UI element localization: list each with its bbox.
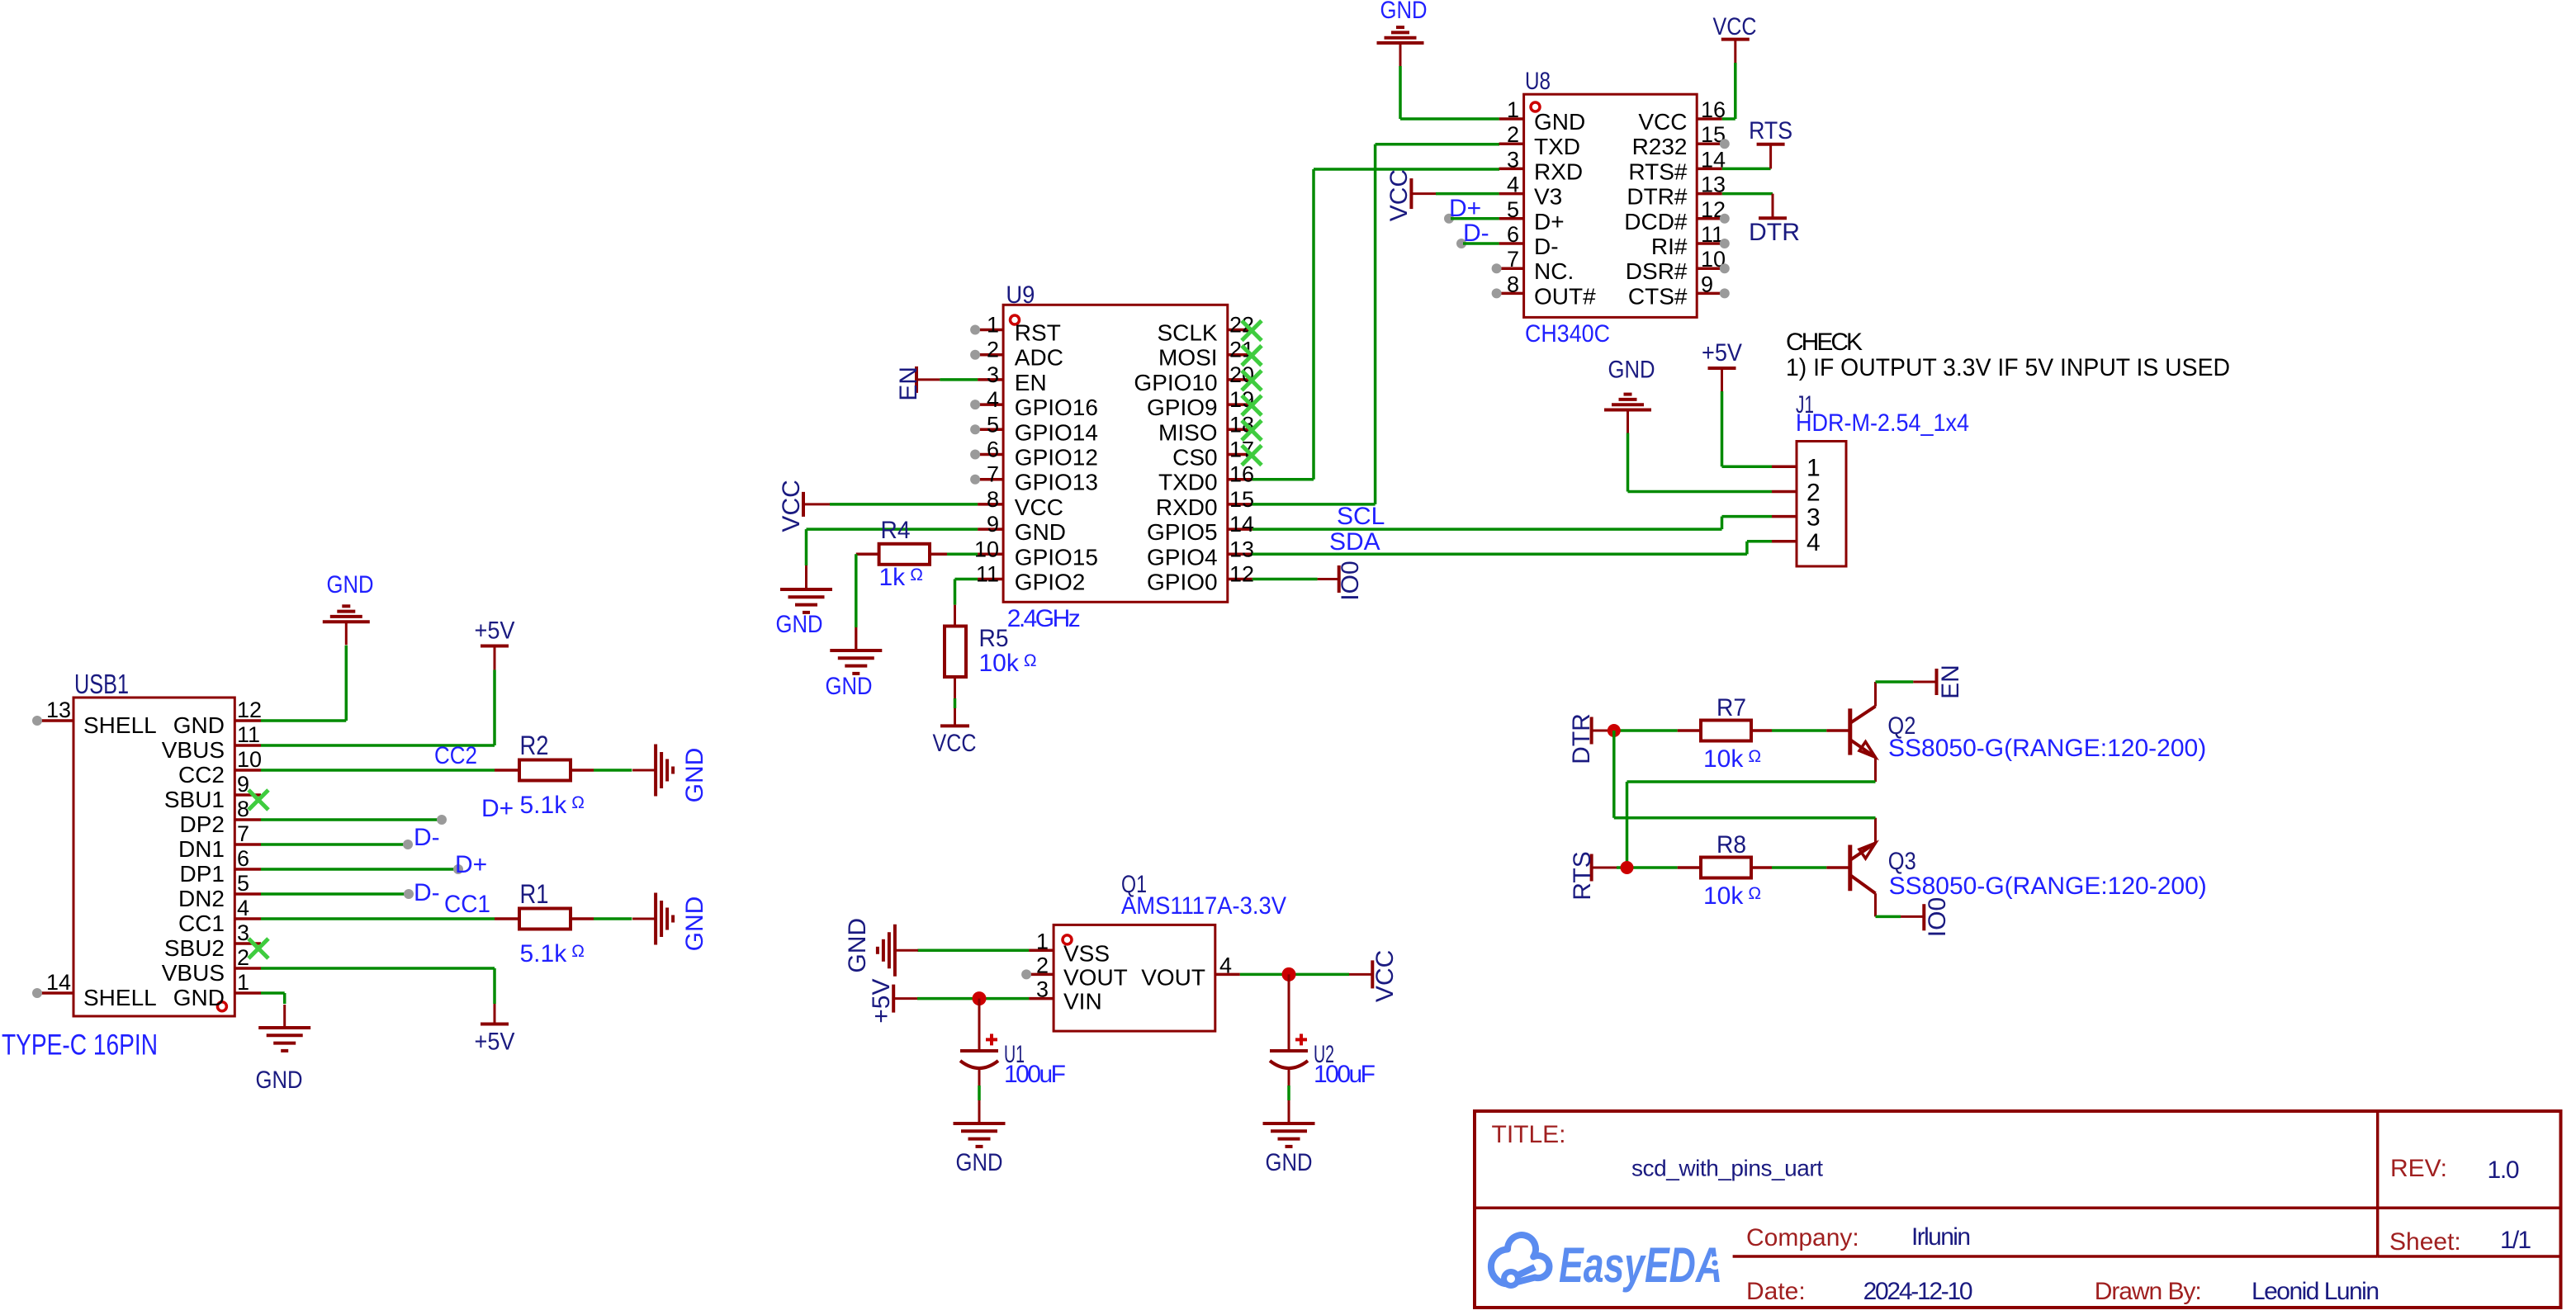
svg-text:D-: D- <box>1463 220 1489 247</box>
svg-text:V3: V3 <box>1534 184 1562 210</box>
svg-text:3: 3 <box>987 362 999 387</box>
svg-text:6: 6 <box>987 438 999 462</box>
svg-text:MISO: MISO <box>1158 419 1218 445</box>
svg-text:VCC: VCC <box>1638 109 1687 135</box>
svg-text:7: 7 <box>1507 247 1519 272</box>
U8 pin 16 VCC <box>1697 117 1722 121</box>
svg-text:+5V: +5V <box>868 978 895 1023</box>
wire R5 bottom to VCC <box>954 677 956 698</box>
U9 pin 1 unconnected dot <box>970 325 980 335</box>
svg-text:3: 3 <box>237 920 249 945</box>
net flag DTR at U8 <box>1759 216 1787 220</box>
svg-text:TITLE:: TITLE: <box>1492 1121 1566 1148</box>
U9 pin 16 TXD0 <box>1228 478 1252 481</box>
svg-text:7: 7 <box>987 462 999 487</box>
svg-text:CS0: CS0 <box>1172 445 1217 471</box>
no-connect X pin3 SBU2 <box>249 939 268 958</box>
U8 pin8 unconnected dot <box>1492 288 1502 298</box>
power +5V above USB1 <box>481 645 509 648</box>
svg-text:GPIO5: GPIO5 <box>1147 519 1218 545</box>
U9 pin 13 GPIO4 <box>1228 553 1252 556</box>
svg-text:VOUT: VOUT <box>1063 964 1128 990</box>
svg-text:Leonid Lunin: Leonid Lunin <box>2252 1278 2379 1305</box>
U9 pin 19 GPIO9 <box>1228 403 1252 406</box>
power VCC rotated at U8 pin4 V3 <box>1409 178 1413 209</box>
svg-text:13: 13 <box>1701 173 1726 197</box>
svg-text:SCL: SCL <box>1337 503 1385 530</box>
svg-text:ADC: ADC <box>1015 345 1063 371</box>
U9 pin 8 VCC <box>978 503 1003 506</box>
U8 pin 10 DSR# <box>1697 267 1722 270</box>
svg-text:2: 2 <box>1507 122 1519 147</box>
svg-text:CC1: CC1 <box>444 891 490 918</box>
USB1 pin 14 SHELL <box>39 991 73 995</box>
ground GND left of Q1 <box>893 925 897 977</box>
U9 pin 18 no-connect X <box>1242 420 1262 440</box>
svg-text:R1: R1 <box>520 879 549 909</box>
USB1 pin 4 CC1 stub <box>234 917 261 920</box>
U9 pin 21 MOSI <box>1228 353 1252 357</box>
wire pin2 VBUS to +5V below <box>261 967 495 970</box>
Q1 pin 1 VSS <box>1029 949 1054 953</box>
wire U8 pin6 D- <box>1456 239 1466 248</box>
svg-text:R5: R5 <box>979 625 1009 652</box>
svg-text:NC.: NC. <box>1534 258 1574 284</box>
U9 pin 7 unconnected dot <box>970 475 980 485</box>
svg-text:SHELL: SHELL <box>83 712 157 738</box>
svg-text:GND: GND <box>956 1149 1003 1176</box>
svg-text:GND: GND <box>1015 519 1066 545</box>
wire J1 pin1 to +5V <box>1721 391 1724 466</box>
wire pin4 CC1 to R1 <box>261 917 495 920</box>
svg-text:HDR-M-2.54_1x4: HDR-M-2.54_1x4 <box>1796 409 1969 437</box>
USB1 pin 9 SBU1 stub <box>234 793 261 797</box>
wire pin10 CC2 to R2 <box>261 769 495 772</box>
svg-text:R232: R232 <box>1632 134 1688 159</box>
svg-text:7: 7 <box>237 821 249 846</box>
svg-text:D+: D+ <box>481 795 514 822</box>
U9 pin 20 no-connect X <box>1242 371 1262 390</box>
svg-text:8: 8 <box>1507 272 1519 296</box>
svg-text:GND: GND <box>1534 109 1585 135</box>
svg-text:DP2: DP2 <box>180 811 225 837</box>
wire J1 pin2 to ground <box>1627 433 1630 492</box>
svg-text:VBUS: VBUS <box>162 960 225 986</box>
U9 pin 14 GPIO5 <box>1228 527 1252 531</box>
resistor R5 10k vertical <box>945 627 966 678</box>
svg-text:EN: EN <box>1937 665 1964 699</box>
svg-text:U8: U8 <box>1525 68 1551 95</box>
svg-text:SCLK: SCLK <box>1157 320 1217 346</box>
svg-text:EasyEDA: EasyEDA <box>1559 1237 1722 1293</box>
svg-text:Sheet:: Sheet: <box>2389 1228 2461 1256</box>
svg-text:1: 1 <box>1507 97 1519 122</box>
svg-text:VOUT: VOUT <box>1141 964 1205 990</box>
U9 pin 1 RST <box>978 329 1003 332</box>
power +5V below USB1 <box>481 1023 509 1026</box>
ground GND above J1 <box>1604 409 1651 412</box>
svg-text:11: 11 <box>976 562 999 587</box>
wire Q2 emitter to RTS net <box>1627 780 1876 783</box>
svg-text:GND: GND <box>681 748 708 803</box>
svg-text:Irlunin: Irlunin <box>1911 1223 1971 1251</box>
svg-text:R8: R8 <box>1717 831 1746 859</box>
svg-text:2024-12-10: 2024-12-10 <box>1863 1278 1973 1305</box>
svg-text:100uF: 100uF <box>1314 1061 1376 1088</box>
svg-text:14: 14 <box>46 970 71 995</box>
svg-text:RTS: RTS <box>1749 117 1792 144</box>
svg-text:GND: GND <box>681 896 708 952</box>
svg-text:15: 15 <box>1229 487 1254 512</box>
power VCC below R5 <box>940 724 969 727</box>
svg-text:TXD: TXD <box>1534 134 1580 159</box>
J1 pin 1 stub <box>1772 466 1797 469</box>
svg-text:14: 14 <box>1701 147 1726 172</box>
svg-text:DTR: DTR <box>1568 713 1595 764</box>
svg-text:2.4GHz: 2.4GHz <box>1007 605 1081 632</box>
U9 pin 21 no-connect X <box>1242 346 1262 366</box>
svg-text:6: 6 <box>237 846 249 871</box>
net flag DTR (rotated) <box>1590 717 1593 745</box>
svg-text:VCC: VCC <box>1713 13 1757 40</box>
wire R2 to ground <box>571 769 594 772</box>
wire U8 pin16 VCC to power above <box>1722 117 1735 121</box>
svg-text:DTR#: DTR# <box>1627 184 1688 210</box>
svg-text:DN2: DN2 <box>178 886 225 911</box>
svg-text:VIN: VIN <box>1063 989 1102 1015</box>
wire SCL net: U9 pin14 GPIO5 to J1 pin3 <box>1252 527 1722 531</box>
U8 pin 5 D+ <box>1499 217 1524 220</box>
U9 pin 22 SCLK <box>1228 329 1252 332</box>
ground GND below U9 pin9 <box>780 588 832 591</box>
svg-text:1: 1 <box>1807 454 1821 481</box>
wire R4 left to ground <box>856 553 879 556</box>
junction dot RTS <box>1621 861 1634 874</box>
svg-text:GPIO12: GPIO12 <box>1015 445 1098 471</box>
wire pin5 DN2 to D- <box>261 892 409 896</box>
svg-text:3: 3 <box>1807 504 1821 532</box>
svg-text:12: 12 <box>1229 562 1254 587</box>
U9 pin 18 MISO <box>1228 428 1252 432</box>
svg-text:+5V: +5V <box>475 1029 515 1056</box>
wire RXD0 net: U9 pin15 to U8 pin2 TXD <box>1252 503 1376 506</box>
svg-text:D+: D+ <box>455 851 487 878</box>
svg-text:D+: D+ <box>1534 209 1565 234</box>
U9 pin 20 GPIO10 <box>1228 378 1252 381</box>
title block outer border <box>1475 1111 2561 1308</box>
U9 pin 11 GPIO2 <box>978 578 1003 581</box>
svg-text:Q3: Q3 <box>1888 848 1916 875</box>
capacitor U1 100uF <box>978 999 981 1051</box>
svg-text:R4: R4 <box>881 517 911 544</box>
junction dot DTR <box>1608 724 1621 737</box>
USB1 pin 7 DN1 stub <box>234 843 261 846</box>
wire pin7 DN1 to D- <box>261 843 408 846</box>
svg-text:Drawn By:: Drawn By: <box>2095 1278 2202 1305</box>
U8 pin7 unconnected dot <box>1492 263 1502 273</box>
IC Q1 AMS1117A-3.3V body <box>1054 925 1215 1031</box>
wire SDA net: U9 pin13 GPIO4 to J1 pin4 <box>1252 553 1747 556</box>
svg-text:DCD#: DCD# <box>1624 209 1688 234</box>
U8 pin1 indicator circle <box>1531 102 1540 111</box>
svg-text:+5V: +5V <box>1702 339 1742 367</box>
resistor R4 1k <box>879 544 930 565</box>
ground GND above USB1 <box>323 620 370 623</box>
svg-text:MOSI: MOSI <box>1158 345 1218 371</box>
wire pin12 GND to ground <box>261 719 346 722</box>
svg-text:EN: EN <box>1015 370 1047 395</box>
connector J1 body <box>1797 442 1846 567</box>
USB1 pin 10 CC2 stub <box>234 769 261 772</box>
junction dot Q1 VIN / U1 <box>973 991 987 1005</box>
U8 pin 14 RTS# <box>1697 168 1722 171</box>
U9 pin 7 GPIO13 <box>978 478 1003 481</box>
USB1 pin 3 SBU2 stub <box>234 942 261 945</box>
svg-text:8: 8 <box>987 487 999 512</box>
ground GND right of R1 (rotated) <box>654 893 657 945</box>
svg-text:100uF: 100uF <box>1004 1061 1066 1088</box>
USB1 pin 6 DP1 stub <box>234 868 261 871</box>
wire R1 to ground <box>571 917 594 920</box>
resistor R1 5.1k <box>519 909 571 929</box>
svg-text:VSS: VSS <box>1063 940 1110 966</box>
U9 pin 6 GPIO12 <box>978 453 1003 456</box>
svg-text:GPIO9: GPIO9 <box>1147 395 1218 420</box>
ground GND above U8 <box>1377 41 1424 45</box>
svg-text:SBU1: SBU1 <box>164 787 225 812</box>
Q1 pin4 VOUT right <box>1215 973 1240 977</box>
net flag RTS at U8 <box>1757 143 1785 146</box>
svg-text:4: 4 <box>1219 953 1232 977</box>
resistor R8 10k <box>1701 858 1751 878</box>
U9 pin 22 no-connect X <box>1242 321 1262 341</box>
svg-text:GPIO0: GPIO0 <box>1147 570 1218 595</box>
U9 pin 12 GPIO0 <box>1228 578 1252 581</box>
transistor Q3 SS8050 NPN <box>1848 845 1852 892</box>
svg-text:13: 13 <box>1229 537 1254 561</box>
svg-text:3: 3 <box>1036 977 1049 1002</box>
wire Q2 collector to EN flag <box>1876 680 1914 684</box>
U9 pin 10 GPIO15 <box>978 553 1003 556</box>
USB1 pin 12 GND stub <box>234 719 261 722</box>
svg-text:GND: GND <box>256 1067 303 1094</box>
wire R8 to Q3 base <box>1751 866 1772 869</box>
svg-text:USB1: USB1 <box>74 669 129 699</box>
svg-text:VCC: VCC <box>1371 950 1399 1002</box>
U8 pin 4 V3 <box>1499 192 1524 196</box>
wire U8 pin1 GND to ground above <box>1399 66 1402 119</box>
svg-text:GPIO4: GPIO4 <box>1147 544 1218 570</box>
U9 pin 17 CS0 <box>1228 453 1252 456</box>
resistor R2 5.1k <box>519 760 571 781</box>
svg-text:4: 4 <box>1507 173 1519 197</box>
svg-text:CH340C: CH340C <box>1525 320 1610 348</box>
svg-text:1.0: 1.0 <box>2488 1157 2520 1184</box>
U9 pin 5 GPIO14 <box>978 428 1003 432</box>
svg-text:OUT#: OUT# <box>1534 283 1596 309</box>
wire U8 pin14 RTS# to RTS flag <box>1722 168 1771 171</box>
connector USB1 TYPE-C 16PIN body <box>73 698 234 1016</box>
svg-text:9: 9 <box>987 512 999 537</box>
svg-text:GPIO15: GPIO15 <box>1015 544 1098 570</box>
USB1 pin1 indicator circle <box>217 1002 226 1011</box>
U9 pin 17 no-connect X <box>1242 446 1262 466</box>
title block divider lines <box>1475 1207 2561 1210</box>
U8 pin 11 RI# <box>1697 242 1722 245</box>
svg-text:GPIO14: GPIO14 <box>1015 419 1098 445</box>
svg-text:5: 5 <box>1507 197 1519 222</box>
wire TXD0 net: U9 pin16 to U8 pin3 RXD <box>1252 478 1314 481</box>
wire DTR junction to Q3 emitter <box>1612 731 1616 818</box>
svg-text:VCC: VCC <box>933 730 977 757</box>
capacitor U2 100uF <box>1288 974 1290 1051</box>
wire Q3 collector to IO0 flag <box>1876 915 1901 919</box>
svg-text:R2: R2 <box>520 731 549 760</box>
USB1 pin 13 SHELL <box>39 719 73 722</box>
U9 pin 2 ADC <box>978 353 1003 357</box>
U9 pin 15 RXD0 <box>1228 503 1252 506</box>
wire pin8 DP2 to D+ <box>261 818 442 821</box>
svg-text:CC2: CC2 <box>178 762 225 788</box>
svg-text:DSR#: DSR# <box>1626 258 1688 284</box>
svg-text:GPIO10: GPIO10 <box>1134 370 1217 395</box>
svg-text:Date:: Date: <box>1746 1278 1806 1305</box>
Q1 pin2 unconnected dot <box>1021 969 1031 979</box>
svg-text:GND: GND <box>1608 357 1655 384</box>
wire U8 pin13 DTR# to DTR flag <box>1722 192 1773 196</box>
svg-text:SBU2: SBU2 <box>164 935 225 961</box>
svg-text:1: 1 <box>987 313 999 338</box>
U8 pin 12 DCD# <box>1697 217 1722 220</box>
net flag IO0 at U9 <box>1338 565 1341 593</box>
svg-text:D+: D+ <box>1449 195 1481 222</box>
junction dot Q1 VOUT / U2 <box>1282 967 1296 982</box>
svg-text:RI#: RI# <box>1651 234 1688 259</box>
svg-text:RXD0: RXD0 <box>1156 494 1218 520</box>
ground GND below R4 <box>830 649 882 652</box>
USB1 pin 5 DN2 stub <box>234 892 261 896</box>
svg-text:VCC: VCC <box>1015 494 1063 520</box>
svg-text:RTS: RTS <box>1569 851 1596 900</box>
U9 pin 6 unconnected dot <box>970 450 980 460</box>
svg-text:D-: D- <box>414 879 440 906</box>
svg-text:REV:: REV: <box>2390 1155 2447 1182</box>
U8 pin 15 R232 <box>1697 142 1722 145</box>
svg-text:GND: GND <box>173 985 225 1010</box>
svg-text:GPIO13: GPIO13 <box>1015 470 1098 495</box>
net flag EN at Q2 <box>1935 669 1939 695</box>
svg-text:4: 4 <box>237 896 249 920</box>
IC U9 2.4GHz module body <box>1003 305 1228 602</box>
svg-text:DP1: DP1 <box>180 861 225 887</box>
svg-text:1: 1 <box>237 970 249 995</box>
J1 pin 4 stub <box>1772 540 1797 543</box>
svg-text:3: 3 <box>1507 147 1519 172</box>
svg-text:SS8050-G(RANGE:120-200): SS8050-G(RANGE:120-200) <box>1888 735 2206 762</box>
J1 pin 2 stub <box>1772 490 1797 494</box>
svg-text:16: 16 <box>1701 97 1726 122</box>
power +5V above J1 <box>1708 367 1736 370</box>
svg-text:SS8050-G(RANGE:120-200): SS8050-G(RANGE:120-200) <box>1889 873 2207 900</box>
U8 pin 11 unconnected dot <box>1720 239 1730 248</box>
svg-text:12: 12 <box>237 698 262 722</box>
svg-text:6: 6 <box>1507 222 1519 247</box>
wire U9 pin12 GPIO0 to IO0 flag <box>1252 578 1318 581</box>
svg-text:GND: GND <box>826 673 873 700</box>
USB1 pin 8 DP2 stub <box>234 818 261 821</box>
svg-text:scd_with_pins_uart: scd_with_pins_uart <box>1631 1156 1823 1181</box>
net flag EN at U9 pin3 <box>915 367 918 393</box>
svg-text:5: 5 <box>987 412 999 437</box>
wire pin11 VBUS to +5V <box>261 744 495 747</box>
USB1 pin 2 VBUS stub <box>234 967 261 970</box>
svg-text:16: 16 <box>1229 462 1254 487</box>
svg-text:TXD0: TXD0 <box>1158 470 1218 495</box>
wire U9 pin11 GPIO2 to R5 <box>955 578 978 581</box>
wire R7 to Q2 base <box>1751 729 1772 732</box>
power VCC right of Q1 <box>1371 960 1374 988</box>
U9 pin 4 unconnected dot <box>970 400 980 409</box>
ground GND below U2 <box>1263 1122 1315 1125</box>
svg-text:2: 2 <box>237 945 249 970</box>
U9 pin 19 no-connect X <box>1242 395 1262 415</box>
svg-text:10: 10 <box>237 747 262 772</box>
Q1 pin1 indicator circle <box>1063 935 1072 944</box>
svg-text:GND: GND <box>776 611 823 638</box>
U8 pin 8 OUT# <box>1499 292 1524 296</box>
ground GND right of R2 (rotated) <box>654 745 657 797</box>
svg-text:1/1: 1/1 <box>2500 1227 2531 1254</box>
svg-text:10: 10 <box>974 537 999 561</box>
wire U8 pin5 D+ <box>1444 214 1454 224</box>
power VCC at U9 pin8 <box>802 492 805 517</box>
U8 pin 7 NC. <box>1499 267 1524 270</box>
transistor Q2 SS8050 NPN <box>1848 708 1852 754</box>
svg-text:2: 2 <box>987 338 999 362</box>
svg-text:RST: RST <box>1015 320 1061 346</box>
svg-text:AMS1117A-3.3V: AMS1117A-3.3V <box>1121 892 1286 920</box>
svg-text:+5V: +5V <box>475 617 515 645</box>
svg-text:14: 14 <box>1229 512 1254 537</box>
svg-text:RXD: RXD <box>1534 158 1583 184</box>
U9 pin 4 GPIO16 <box>978 403 1003 406</box>
svg-text:D-: D- <box>1534 234 1559 259</box>
wire RTS to R8 <box>1592 867 1617 869</box>
wire R4 to U9 pin10 GPIO15 <box>930 553 947 556</box>
net flag IO0 at Q3 <box>1922 904 1925 930</box>
U8 pin 6 D- <box>1499 242 1524 245</box>
resistor R7 10k <box>1701 721 1751 741</box>
U8 pin 10 unconnected dot <box>1720 263 1730 273</box>
svg-text:VCC: VCC <box>778 480 805 532</box>
wire Q1 VOUT to VCC (rotated) <box>1240 973 1349 977</box>
wire DTR to R7 <box>1592 730 1617 732</box>
no-connect X pin9 SBU1 <box>249 790 268 810</box>
wire Q1 VSS to ground (rotated) <box>917 949 1029 953</box>
ground GND below U1 <box>954 1122 1006 1125</box>
svg-text:DN1: DN1 <box>178 836 225 862</box>
svg-text:9: 9 <box>1701 272 1713 296</box>
logo EasyEDA cloud <box>1491 1235 1550 1285</box>
U8 pin 9 unconnected dot <box>1720 288 1730 298</box>
svg-text:SDA: SDA <box>1329 528 1380 556</box>
svg-text:GND: GND <box>173 712 225 738</box>
Q1 pin 2 VOUT <box>1029 973 1054 977</box>
svg-text:CHECK: CHECK <box>1786 329 1863 356</box>
svg-text:GPIO2: GPIO2 <box>1015 570 1086 595</box>
svg-text:GND: GND <box>1380 0 1428 24</box>
U9 pin1 indicator circle <box>1011 315 1020 324</box>
